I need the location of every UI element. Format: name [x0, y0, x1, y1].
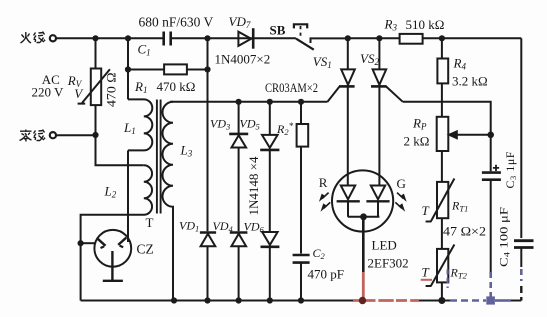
svg-text:C1: C1: [138, 42, 151, 58]
capacitor C4: [514, 241, 534, 267]
diode VD7: [238, 28, 253, 49]
thermistor RT2: [426, 245, 455, 301]
svg-text:LED: LED: [372, 238, 397, 253]
label SB: [270, 22, 286, 37]
svg-text:47 Ω×2: 47 Ω×2: [443, 223, 486, 238]
capacitor C3: [482, 135, 501, 272]
label R4: [453, 55, 467, 71]
wire live column: [127, 38, 129, 99]
diode VD5: [260, 102, 279, 232]
wire right edge: [520, 38, 522, 238]
svg-text:VD5: VD5: [240, 116, 260, 131]
wire bottom rail: [81, 300, 353, 302]
svg-text:SB: SB: [270, 22, 286, 37]
label L3: [180, 143, 193, 159]
svg-text:R2*: R2*: [276, 121, 294, 137]
label G: [397, 176, 406, 191]
label + (C3): [493, 165, 499, 171]
label 1N4148 x4 (rotated): [246, 156, 261, 215]
blue dashed vertical right edge: [520, 269, 523, 301]
svg-text:3.2 kΩ: 3.2 kΩ: [452, 73, 488, 88]
label 2 kohm: [404, 133, 430, 148]
svg-text:RP: RP: [412, 116, 427, 132]
thyristor VS2: [371, 38, 403, 185]
capacitor C2: [293, 255, 310, 301]
label RV: [67, 73, 83, 89]
label LED: [372, 238, 397, 253]
label 470 ohm (rotated): [103, 73, 118, 108]
svg-text:510 kΩ: 510 kΩ: [406, 17, 445, 32]
label C3 1uF (rotated): [503, 151, 518, 188]
wire bottom rail right part: [419, 300, 521, 302]
label RT2 (blue): [450, 266, 468, 281]
label V: [74, 86, 84, 101]
label L2: [104, 184, 117, 200]
label T (RT1): [422, 203, 430, 218]
potentiometer RP: [437, 117, 491, 182]
socket CZ: [94, 230, 131, 281]
diode VD4: [230, 233, 248, 301]
label 680 nF/630 V: [139, 15, 214, 30]
svg-text:R1: R1: [134, 79, 147, 95]
svg-text:RT2: RT2: [450, 266, 468, 281]
LED emission arrows right: [395, 193, 406, 212]
wire tap down: [96, 135, 144, 165]
svg-text:470 kΩ: 470 kΩ: [157, 79, 196, 94]
label 3.2 kohm: [452, 73, 488, 88]
svg-text:VS2: VS2: [360, 51, 379, 67]
svg-text:R: R: [319, 175, 328, 190]
label 470 kohm: [157, 79, 196, 94]
transformer winding L1: [128, 99, 152, 150]
label VD4: [213, 219, 234, 234]
svg-text:R3: R3: [384, 17, 398, 33]
label C4 100uF (rotated): [497, 207, 512, 267]
svg-text:2 kΩ: 2 kΩ: [404, 133, 430, 148]
svg-text:L2: L2: [104, 184, 117, 200]
wire CZ left: [81, 242, 95, 244]
wire hot column down: [207, 38, 209, 231]
svg-text:VD1: VD1: [179, 218, 199, 233]
terminal 零线: [50, 132, 56, 138]
label R3: [384, 17, 398, 33]
blue dashed rail segment: [450, 299, 511, 302]
svg-text:VD3: VD3: [210, 116, 230, 131]
label C1: [138, 42, 151, 58]
label T (RT2): [422, 265, 430, 280]
label 1N4007x2: [215, 51, 271, 66]
resistor R2: [297, 102, 309, 254]
svg-text:680 nF/630 V: 680 nF/630 V: [139, 15, 214, 30]
varistor RV: [78, 38, 110, 135]
label R1: [134, 79, 147, 95]
label VD7: [229, 14, 251, 30]
wire secondary rail: [170, 101, 328, 103]
svg-text:VD7: VD7: [229, 14, 251, 30]
svg-text:T: T: [422, 265, 430, 280]
label VD5: [240, 116, 260, 131]
svg-text:L3: L3: [180, 143, 193, 159]
LED 2EF302: [332, 170, 393, 272]
switch SB: [294, 24, 348, 49]
capacitor C1: [164, 32, 296, 46]
resistor R4: [437, 38, 448, 117]
transformer winding L2: [81, 165, 152, 300]
label L1: [123, 120, 136, 136]
node 零线 (neutral) label: [20, 130, 46, 142]
wire top rail right: [348, 37, 522, 39]
svg-text:RT1: RT1: [451, 198, 468, 213]
label 47 ohm x2: [443, 223, 486, 238]
svg-text:CR03AM×2: CR03AM×2: [265, 81, 318, 95]
blue dashed vertical at C3 branch: [489, 272, 492, 297]
svg-text:C4 100 μF: C4 100 μF: [497, 207, 512, 267]
label VS2: [360, 51, 379, 67]
resistor R1: [128, 64, 208, 74]
svg-text:L1: L1: [123, 120, 136, 136]
label R: [319, 175, 328, 190]
label VD6: [244, 220, 265, 235]
thyristor VS1: [328, 38, 355, 185]
svg-text:1N4148 ×4: 1N4148 ×4: [246, 156, 261, 215]
svg-text:C3 1μF: C3 1μF: [503, 151, 518, 188]
blue square junction: [486, 296, 495, 304]
diode VD1: [200, 233, 216, 301]
resistor R3: [400, 34, 423, 44]
transformer winding L3: [162, 102, 173, 301]
wire neutral to varistor: [56, 134, 95, 136]
label 470 pF: [308, 266, 344, 281]
svg-text:G: G: [397, 176, 406, 191]
svg-text:VS1: VS1: [313, 54, 332, 70]
svg-text:470 pF: 470 pF: [308, 266, 344, 281]
node 火线 (live) label: [21, 32, 46, 44]
label CR03AM x2: [265, 81, 318, 95]
svg-text:1N4007×2: 1N4007×2: [215, 51, 271, 66]
svg-text:R4: R4: [453, 55, 467, 71]
thermistor RT1: [426, 179, 455, 249]
LED emission arrows left: [319, 193, 330, 212]
wire top rail left: [56, 37, 163, 39]
label 2EF302: [368, 255, 409, 270]
label VD1: [179, 218, 199, 233]
svg-text:C2: C2: [313, 246, 326, 261]
svg-text:VD4: VD4: [213, 219, 234, 234]
label VD3: [210, 116, 230, 131]
diode VD3: [229, 102, 248, 232]
label RT1: [451, 198, 468, 213]
diode VD6: [261, 232, 280, 301]
label 510 kohm: [406, 17, 445, 32]
svg-text:2EF302: 2EF302: [368, 255, 409, 270]
wire VS2 gate to wiper: [403, 102, 491, 135]
label RP: [412, 116, 427, 132]
label T: [146, 215, 154, 230]
label CZ: [137, 242, 154, 257]
label C2: [313, 246, 326, 261]
svg-text:470 Ω: 470 Ω: [103, 73, 118, 108]
red wire segment LED cathode: [362, 272, 365, 299]
svg-text:T: T: [422, 203, 430, 218]
red mark under T: [421, 279, 432, 281]
svg-text:CZ: CZ: [137, 242, 154, 257]
transformer core: [157, 100, 161, 214]
blue dashed vertical near RT2: [447, 270, 449, 289]
terminal 火线: [50, 35, 56, 41]
label R2*: [276, 121, 294, 137]
svg-text:T: T: [146, 215, 154, 230]
label VS1: [313, 54, 332, 70]
svg-text:220 V: 220 V: [32, 85, 65, 100]
label AC 220V: [32, 72, 65, 100]
red bottom rail segment: [353, 299, 419, 302]
wire L1-L2 link: [127, 150, 129, 242]
svg-text:V: V: [74, 86, 84, 101]
svg-text:VD6: VD6: [244, 220, 265, 235]
